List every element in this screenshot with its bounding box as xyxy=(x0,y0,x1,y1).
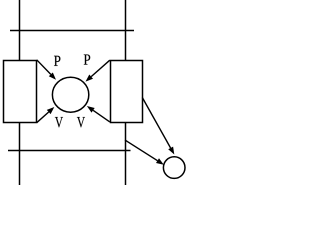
label V2 (V) xyxy=(77,117,85,127)
wire: top horizontal crossbar xyxy=(10,30,134,32)
arrow short (from right lower rail to output circle left) xyxy=(125,140,164,165)
arrow V left (from left box bottom-right corner into circle) xyxy=(37,107,55,123)
box: right cylinder xyxy=(111,61,143,123)
arrow P left (from left box top-right corner into circle) xyxy=(37,60,56,80)
wire: bottom horizontal crossbar xyxy=(8,150,131,152)
wire: right lower vertical rail xyxy=(125,123,127,186)
node: output circle bottom-right xyxy=(163,157,185,179)
arrow long (from right box right edge to output circle top) xyxy=(142,98,174,155)
wire: left lower vertical rail xyxy=(19,123,21,186)
label P2 (P) xyxy=(84,54,90,64)
label V1 (V) xyxy=(55,117,63,127)
label P1 (P) xyxy=(54,56,60,66)
arrow V right (from right box bottom-left corner into circle) xyxy=(87,106,110,122)
wire: left upper vertical rail xyxy=(19,0,21,61)
node: central circle xyxy=(52,77,88,112)
wire: right upper vertical rail xyxy=(125,0,127,61)
arrow P right (from right box top-left corner into circle) xyxy=(86,60,110,81)
box: left cylinder xyxy=(4,61,37,123)
